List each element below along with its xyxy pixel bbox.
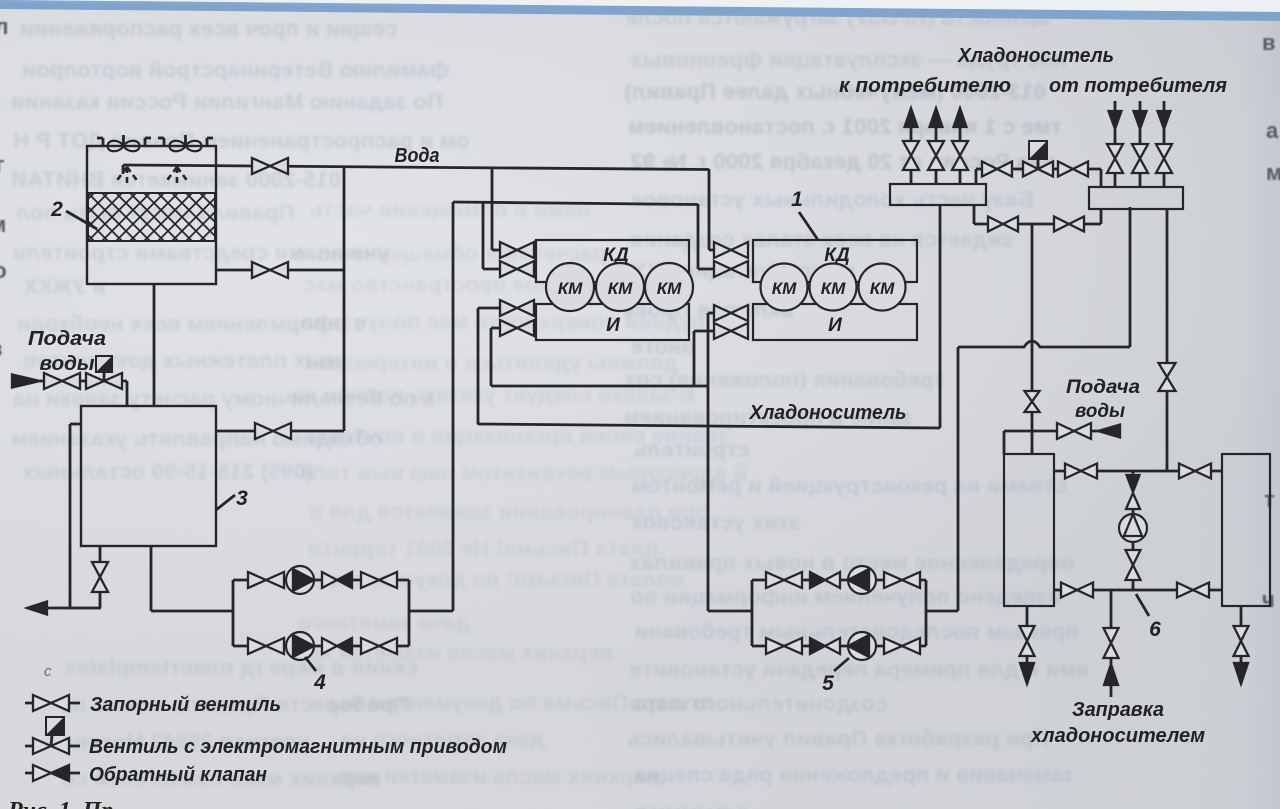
wire: tank drain [99,546,102,608]
tank 3 (water reservoir) [81,406,216,546]
svg-text:воды: воды [1075,401,1125,422]
wire: bypass top y=169 [976,169,1101,187]
flow arrow down 3 [1158,111,1171,129]
check valve CV3 branch 5a [810,572,840,588]
valve V4 left supply [44,373,80,389]
valve V25 return riser (vertical) [1107,144,1123,173]
wire: branch 5b [752,645,926,648]
wire: pump 5 return riser [926,347,958,611]
valve V12 И-A [500,300,534,316]
spray nozzle S1 [115,167,139,184]
label КМ B2 [821,279,846,298]
flow arrow drain 6b [1234,663,1248,684]
valve V43 drain 6b (vertical) [1234,626,1249,656]
valve V33 drop2 (vertical) [1159,363,1176,391]
svg-text:Вентиль с электромагнитным при: Вентиль с электромагнитным приводом [89,736,507,758]
supply riser 1 [910,127,913,184]
label КМ A2 [608,279,633,298]
valve V35 upper link [1065,464,1097,479]
pump P5 (transfer, vertical) [1119,514,1147,542]
label Подача воды (right) [1066,377,1140,422]
compressor КМ A2 [596,263,644,311]
label Вода [395,145,440,167]
svg-text:от потребителя: от потребителя [1049,75,1227,97]
legend text 3 [89,764,267,786]
compressor КМ A1 [546,263,594,311]
label Заправка хладоносителем [1030,699,1205,747]
pump group 4 left manifold [232,580,235,646]
svg-text:6: 6 [1149,618,1161,641]
legend wire 2 [25,745,80,748]
wire: header drop to КД-B [698,204,714,269]
svg-text:Заправка: Заправка [1072,699,1164,721]
flow arrow down 1 [1109,111,1122,129]
svg-text:Вода: Вода [395,145,440,167]
pump P2 (group 4 bottom) [286,632,314,660]
wire: condenser water header y=202 [453,202,698,205]
flow arrow drain 6a [1020,663,1034,684]
label КМ A1 [558,279,583,298]
label КМ A3 [657,279,682,298]
label 5 with leader [822,658,849,695]
storage tank 6a (left) [1004,454,1054,606]
wire: bypass bottom y=224 [974,205,1101,224]
valve V39 lower link [1061,583,1093,598]
check valve CV2 branch 4b [322,638,352,654]
valve V22 supply riser (vertical) [903,141,919,170]
check valve CV1 branch 4a [322,572,352,588]
flow arrow right supply [1098,425,1120,438]
legend text 2 [89,736,507,758]
valve V6 branch 4a [248,572,284,588]
valve V20 branch 5b [766,638,802,654]
return riser 3 [1163,101,1166,187]
wire: И-B inlet stub [708,313,714,611]
valve V34 right supply [1057,423,1091,439]
solenoid valve SV1 left supply [86,356,122,389]
wire: Вода drop to КД-A [492,168,500,250]
wire: tank 6b drain [1240,606,1243,662]
return riser 2 [1139,101,1142,187]
svg-text:Обратный клапан: Обратный клапан [89,764,267,786]
valve V38 pump column (vertical) [1126,550,1141,580]
wire: make-up drop x=1032 [1031,224,1034,454]
valve V16 И-B [714,305,748,321]
label И (unit A) [606,315,620,336]
cooling tower 2 packing (hatched) [88,193,215,241]
valve V2 tower lower outlet [252,262,288,278]
wire: right water supply [1004,431,1098,454]
label Хладоноситель (top) [957,45,1114,67]
svg-text:3: 3 [236,487,248,510]
wire: pump 5 suction [708,610,752,613]
wire: tanks upper link y=471 [1054,470,1222,473]
valve V42 drain 6a (vertical) [1020,626,1035,656]
valve V5 tank drain (vertical) [92,562,108,592]
wire: overflow pipe [70,424,81,608]
valve V3 tank feed [255,423,291,439]
wire: water header Вода y=165 [123,165,709,174]
return header (от потребителя) [1089,187,1183,209]
condenser КД-B box [753,240,917,282]
flow arrow fill up [1104,664,1118,685]
cooling tower 2 body [87,146,216,284]
svg-text:И: И [606,315,620,336]
flow arrow down 2 [1134,111,1147,129]
wire: left supply line [40,381,127,406]
valve V24 supply riser (vertical) [952,141,968,170]
wire: supply header drop to line B [939,205,942,428]
compressor КМ B3 [859,264,906,311]
svg-text:с: с [44,663,52,680]
label Подача воды (left) [28,328,106,375]
valve V15 КД-B outlet [714,261,748,277]
valve V7 branch 4a [361,572,397,588]
pump group 4 right manifold [408,580,411,646]
valve V41 fill (vertical) [1104,628,1119,658]
compressor КМ B1 [761,264,808,311]
legend symbol: запорный вентиль [33,695,69,711]
svg-text:И: И [828,315,842,336]
stray pencil mark [44,663,52,680]
wire: tanks lower link y=590 [1054,589,1222,592]
legend text 1 [90,694,281,716]
label 3 with leader [216,487,248,510]
valve V14 КД-B inlet [714,242,748,258]
svg-text:5: 5 [822,672,834,695]
valve V40 lower link [1177,583,1209,598]
valve V21 branch 5b [884,638,920,654]
valve V10 КД-A inlet [500,242,534,258]
wire: tank feed y=431 [216,430,344,433]
wire: header drop to КД-A [483,202,500,269]
pump P1 (group 4 top) [286,566,314,594]
wire: branch 4a [233,579,409,582]
evaporator И-A box [536,304,689,340]
wire: return line y=347 with bridge [958,341,1130,347]
wire: fill pipe [1110,590,1113,697]
supply riser 2 [935,127,938,184]
fan mounting ticks [97,138,213,146]
valve V29 bypass top [1058,162,1088,177]
valve V36 upper link [1179,464,1211,479]
wire: return header drop 2 [1166,209,1169,471]
valve V28 bypass top [982,162,1012,177]
pump P3 (group 5 top) [848,566,876,594]
label от потребителя [1049,75,1227,97]
svg-text:Запорный вентиль: Запорный вентиль [90,694,281,716]
valve V19 branch 5a [884,572,920,588]
label 1 with leader [791,188,818,240]
wire: И-A outlet stub [491,328,500,386]
label 4 with leader [305,657,326,694]
svg-text:воды: воды [40,353,95,375]
wire: pump column [1132,471,1135,590]
valve V9 branch 4b [361,638,397,654]
valve V32 make-up (vertical) [1025,391,1040,412]
valve V30 bypass bottom [988,217,1018,232]
compressor КМ B2 [810,264,857,311]
label КМ B1 [772,279,797,298]
wire: pump 4 discharge riser [409,202,453,611]
svg-text:КМ: КМ [772,279,797,298]
flow arrow water supply left [12,375,40,388]
pump group 5 right manifold [925,580,928,646]
svg-text:хладоносителем: хладоносителем [1030,725,1205,747]
valve V11 КД-A outlet [500,261,534,277]
svg-text:Подача: Подача [1066,377,1140,398]
wire: coolant line B y=425 (Хладоноситель) [478,424,940,428]
valve V1 on water header [252,158,288,174]
wire: coolant line A y=386 [491,385,708,388]
valve V27 return riser (vertical) [1156,144,1172,173]
wire: tank 6a drain [1026,606,1029,662]
label 6 with leader [1136,594,1161,641]
legend wire 3 [25,772,80,775]
svg-text:Рис. 1. Пр: Рис. 1. Пр [7,798,113,809]
valve V8 branch 4b [248,638,284,654]
svg-text:Хладоноситель: Хладоноситель [957,45,1114,67]
valve V26 return riser (vertical) [1132,144,1148,173]
svg-text:КМ: КМ [821,279,846,298]
label к потребителю [839,75,1011,97]
wire: И-A inlet stub [478,308,500,425]
legend wire 1 [25,702,80,705]
valve V17 И-B [714,323,748,339]
fan F2 on tower [170,135,202,151]
svg-text:Подача: Подача [28,328,106,350]
svg-text:1: 1 [791,188,803,211]
svg-text:к потребителю: к потребителю [839,75,1011,97]
legend symbol: вентиль с электромагнитным приводом [33,717,69,754]
svg-text:КМ: КМ [558,279,583,298]
valve V31 bypass bottom [1054,217,1084,232]
svg-text:2: 2 [50,198,63,221]
solenoid valve SV2 bypass [1023,141,1053,177]
pump group 5 left manifold [751,580,754,646]
check valve CV4 branch 5b [810,638,840,654]
wire: branch 5a [752,579,926,582]
fan F1 on tower [108,135,140,151]
label И (unit B) [828,315,842,336]
valve V23 supply riser (vertical) [928,141,944,170]
svg-text:КМ: КМ [870,279,895,298]
label КД (unit B) [824,245,850,266]
wire: И-B outlet stub [694,331,714,386]
wire: tower lower outlet [216,269,344,272]
storage tank 6b (right) [1222,454,1270,606]
label 2 with leader [50,198,97,229]
svg-text:КМ: КМ [657,279,682,298]
spray nozzle S2 [165,167,189,184]
label КД (unit A) [603,245,629,266]
wire: return header drop 1 [1129,207,1132,347]
flow arrow up 3 [954,108,967,127]
evaporator И-B box [753,304,917,340]
legend symbol: обратный клапан [33,765,69,781]
wire: tower drain to tank [153,284,156,406]
compressor КМ A3 [645,263,693,311]
valve V37 pump column (triangle up) [1126,493,1140,509]
supply riser 3 [959,127,962,184]
wire: branch 4b [233,645,409,648]
supply header (к потребителю) [890,184,986,205]
flow arrow up 2 [930,108,943,127]
condenser КД-A box [536,240,689,282]
valve V13 И-A [500,320,534,336]
valve V18 branch 5a [766,572,802,588]
wire: drain header y=608 [29,607,101,610]
wire: tank outlet to pumps [151,546,233,611]
svg-text:КМ: КМ [608,279,633,298]
return riser 1 [1114,101,1117,187]
label Хладоноситель (middle) [749,402,907,424]
caption Рис. 1 (cut off) [7,798,113,809]
wire: tower riser x=344 [343,167,346,432]
label КМ B3 [870,279,895,298]
svg-text:Хладоноситель: Хладоноситель [749,402,907,424]
flow arrow pump column [1127,475,1140,492]
svg-text:4: 4 [313,671,326,694]
flow arrow drain left [27,602,47,615]
flow arrow up 1 [905,108,918,127]
pump P4 (group 5 bottom) [848,632,876,660]
wire: Вода drop to КД-B [709,169,714,250]
